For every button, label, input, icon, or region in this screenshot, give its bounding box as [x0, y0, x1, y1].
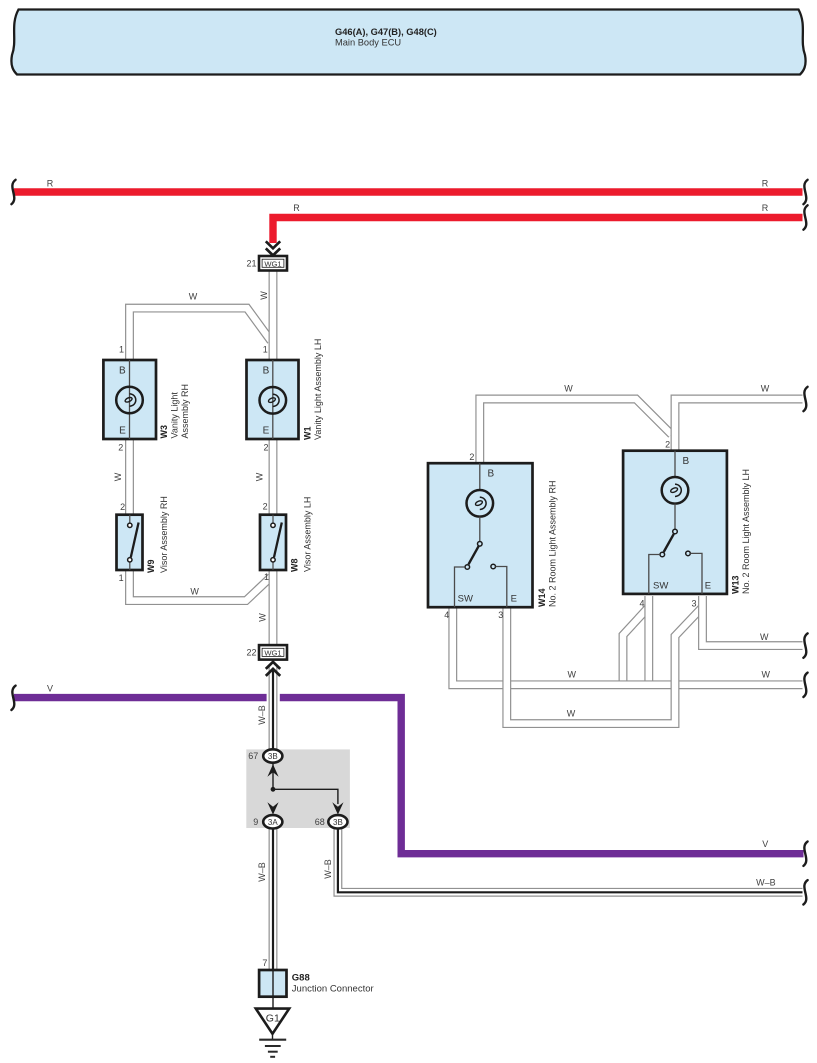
svg-text:W: W — [189, 292, 198, 302]
svg-text:Visor Assembly LH: Visor Assembly LH — [302, 497, 312, 572]
svg-text:Vanity Light: Vanity Light — [169, 392, 179, 439]
svg-text:R: R — [762, 203, 769, 213]
svg-text:W: W — [255, 472, 265, 481]
svg-text:B: B — [119, 366, 126, 377]
svg-text:2: 2 — [469, 452, 474, 462]
svg-text:E: E — [119, 425, 126, 436]
svg-text:W13: W13 — [731, 575, 741, 594]
svg-text:2: 2 — [665, 439, 670, 449]
svg-text:7: 7 — [262, 958, 267, 968]
svg-text:W: W — [190, 587, 199, 597]
svg-text:V: V — [47, 683, 53, 693]
svg-text:W9: W9 — [146, 560, 156, 574]
svg-text:No. 2 Room Light Assembly RH: No. 2 Room Light Assembly RH — [547, 480, 557, 607]
svg-text:9: 9 — [253, 817, 258, 827]
svg-text:SW: SW — [653, 580, 668, 591]
svg-text:W: W — [258, 613, 268, 622]
svg-text:Assembly RH: Assembly RH — [180, 384, 190, 439]
svg-text:W: W — [113, 472, 123, 481]
svg-text:B: B — [263, 366, 270, 377]
svg-text:3B: 3B — [268, 752, 278, 761]
svg-text:67: 67 — [248, 751, 258, 761]
svg-text:W–B: W–B — [257, 705, 267, 725]
svg-text:2: 2 — [120, 502, 125, 512]
svg-text:1: 1 — [119, 573, 124, 583]
svg-text:R: R — [762, 178, 769, 188]
svg-text:W: W — [567, 709, 576, 719]
svg-text:No. 2 Room Light Assembly LH: No. 2 Room Light Assembly LH — [741, 469, 751, 594]
svg-text:1: 1 — [119, 345, 124, 355]
svg-text:E: E — [705, 580, 711, 591]
svg-text:W3: W3 — [159, 425, 169, 439]
svg-text:W–B: W–B — [323, 859, 333, 879]
svg-text:2: 2 — [263, 443, 268, 453]
svg-text:Vanity Light Assembly LH: Vanity Light Assembly LH — [313, 339, 323, 440]
svg-text:W: W — [568, 669, 577, 679]
svg-text:W: W — [760, 632, 769, 642]
svg-text:2: 2 — [118, 443, 123, 453]
svg-text:3: 3 — [691, 599, 696, 609]
svg-text:3B: 3B — [333, 818, 343, 827]
svg-text:E: E — [511, 594, 517, 605]
svg-text:W8: W8 — [289, 559, 299, 573]
svg-text:B: B — [488, 469, 495, 480]
svg-text:W: W — [259, 291, 269, 300]
svg-text:SW: SW — [458, 594, 473, 605]
svg-text:Junction Connector: Junction Connector — [292, 983, 374, 994]
svg-text:2: 2 — [263, 502, 268, 512]
svg-text:W–B: W–B — [257, 862, 267, 882]
svg-text:W: W — [761, 384, 770, 394]
svg-text:B: B — [683, 456, 690, 467]
svg-text:21: 21 — [246, 258, 256, 268]
svg-text:WG1: WG1 — [264, 649, 281, 658]
svg-text:R: R — [47, 178, 54, 188]
svg-text:68: 68 — [315, 817, 325, 827]
svg-text:W: W — [564, 384, 573, 394]
svg-text:W14: W14 — [537, 588, 547, 607]
svg-text:22: 22 — [246, 648, 256, 658]
svg-text:W–B: W–B — [756, 878, 776, 888]
svg-text:Main Body ECU: Main Body ECU — [335, 38, 401, 48]
svg-text:V: V — [762, 839, 768, 849]
svg-text:1: 1 — [264, 572, 269, 582]
svg-text:R: R — [293, 203, 300, 213]
svg-text:1: 1 — [263, 345, 268, 355]
svg-text:G88: G88 — [292, 973, 310, 984]
svg-text:W: W — [761, 669, 770, 679]
svg-text:Visor Assembly RH: Visor Assembly RH — [159, 496, 169, 573]
svg-text:WG1: WG1 — [264, 260, 281, 269]
svg-text:3A: 3A — [268, 818, 278, 827]
svg-text:3: 3 — [498, 610, 503, 620]
svg-text:4: 4 — [444, 610, 449, 620]
svg-text:W1: W1 — [302, 427, 312, 441]
svg-text:4: 4 — [639, 599, 644, 609]
svg-text:G46(A), G47(B), G48(C): G46(A), G47(B), G48(C) — [335, 27, 437, 37]
svg-text:E: E — [263, 425, 270, 436]
svg-text:G1: G1 — [266, 1012, 280, 1024]
